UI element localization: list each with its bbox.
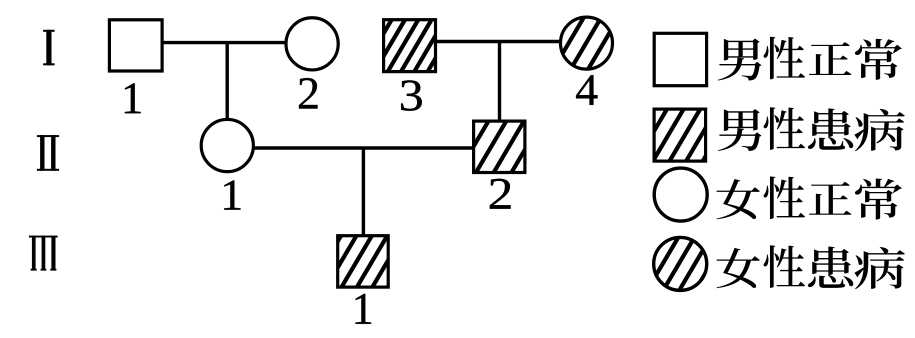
legend text 男性患病 xyxy=(718,107,905,151)
legend symbol affected male hatched square xyxy=(633,104,803,167)
individual I-3 affected male hatched square xyxy=(358,14,528,77)
label III-1 number 1 xyxy=(356,294,372,324)
individual I-1 normal male square xyxy=(109,20,162,71)
wire marriage I-1 to I-2 xyxy=(163,41,285,44)
individual II-1 normal female circle xyxy=(201,119,253,171)
individual I-4 affected female hatched circle xyxy=(533,12,709,75)
individual III-1 affected male hatched square xyxy=(308,230,483,292)
legend text 女性患病 xyxy=(716,245,904,289)
generation label II xyxy=(37,135,59,171)
wire marriage II-1 to II-2 xyxy=(254,146,473,149)
generation label III xyxy=(29,236,58,271)
wire marriage I-3 to I-4 xyxy=(437,40,561,43)
legend text 女性正常 xyxy=(716,176,901,219)
label I-3 number 3 xyxy=(401,80,422,110)
legend symbol affected female hatched circle xyxy=(628,232,795,296)
label I-1 number 1 xyxy=(125,83,141,113)
legend symbol normal female circle xyxy=(654,168,707,221)
individual II-2 affected male hatched square xyxy=(437,116,616,178)
label I-4 number 4 xyxy=(576,75,597,105)
generation label I xyxy=(43,30,55,66)
wire drop from I-3/I-4 to II-2 xyxy=(498,42,501,121)
legend text 男性正常 xyxy=(718,37,902,81)
wire drop from II-1/II-2 to III-1 xyxy=(362,148,365,235)
individual I-2 normal female circle xyxy=(286,18,338,70)
legend symbol normal male square xyxy=(654,33,706,85)
label I-2 number 2 xyxy=(299,78,317,108)
wire drop from I-1/I-2 to II-1 xyxy=(225,43,228,119)
label II-2 number 2 xyxy=(490,179,511,209)
label II-1 number 1 xyxy=(224,180,240,209)
